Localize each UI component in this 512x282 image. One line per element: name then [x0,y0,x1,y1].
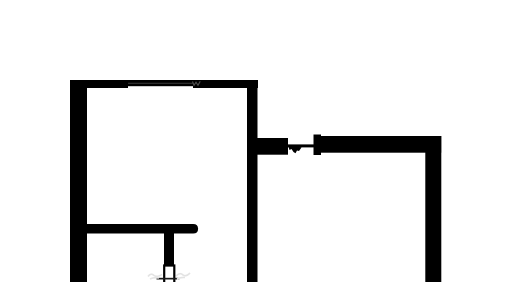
door D1 jamb [314,135,322,156]
window W1 mid line [128,82,193,85]
door frame bottom (outlined white box) [164,266,174,282]
threshold line at bottom door [157,278,180,280]
window W1 band [128,80,193,86]
watermark squiggle left of bottom door [148,274,162,279]
wall right horizontal [318,136,441,153]
door D1 swing mark [288,145,302,153]
wall interior stub vertical [164,233,174,265]
door D1 leaf line [287,144,314,147]
wall stub right of middle wall [256,138,288,155]
watermark squiggle right of bottom door [176,273,190,279]
wall top segment C [193,80,258,88]
wall middle vertical [247,80,258,282]
wall right exterior vertical [425,136,441,282]
wall left exterior vertical [70,80,87,282]
wall top segment A [70,80,128,88]
wall interior horizontal with rounded end [87,224,198,234]
watermark W mark on top wall [193,81,201,85]
